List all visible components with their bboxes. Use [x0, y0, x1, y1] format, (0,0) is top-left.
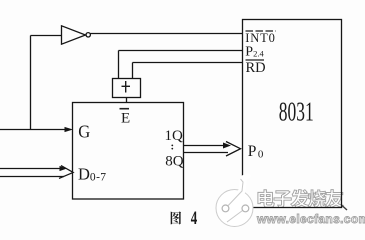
wire P2.4 vertical into OR box	[118, 51, 120, 79]
svg-text:RD: RD	[246, 60, 266, 76]
bus D0-7 line upper	[0, 168, 64, 170]
arrowhead bus output big	[226, 142, 241, 157]
watermark char 子	[274, 191, 291, 208]
wire inverter output to INT0 pin	[91, 33, 243, 35]
svg-text:4: 4	[191, 209, 197, 229]
inverter U1 triangle	[62, 26, 86, 44]
arrowhead small on upper D0-7 line	[60, 166, 68, 171]
svg-text:8Q: 8Q	[165, 154, 184, 170]
wire RD horizontal	[133, 62, 243, 64]
inverter U1 output bubble	[86, 33, 90, 37]
wire vertical from inverter input down to G line	[30, 36, 32, 130]
svg-text:G: G	[78, 122, 90, 141]
caption character 图	[171, 211, 181, 224]
svg-text:www.elecfans.com: www.elecfans.com	[256, 212, 365, 226]
label RD with overline	[246, 60, 266, 76]
label INT0 with overline	[245, 31, 276, 45]
bus output line lower	[184, 152, 229, 154]
svg-text:E: E	[121, 111, 130, 127]
8031 U4 box	[243, 20, 342, 208]
watermark char 友	[325, 190, 343, 208]
svg-text:8031: 8031	[279, 95, 314, 126]
arrowhead bus D0-7	[59, 166, 73, 179]
arrowhead G input	[65, 127, 74, 132]
wire OR output to latch E	[126, 98, 128, 103]
wire G input horizontal	[0, 129, 69, 131]
watermark char 电	[258, 190, 274, 208]
latch U3 box	[73, 103, 184, 200]
plus sign in OR box	[122, 81, 131, 93]
scan artifact at 8031 bottom-right corner	[342, 206, 347, 211]
bus output line upper	[184, 145, 229, 147]
OR gate box U2	[113, 79, 141, 98]
watermark char 发	[291, 190, 309, 208]
watermark chinese text 电子发烧友	[258, 190, 343, 208]
svg-text:INT0: INT0	[245, 31, 275, 45]
bus D0-7 line lower	[0, 176, 64, 178]
watermark logo circle	[216, 176, 253, 227]
wire P2.4 horizontal	[119, 50, 243, 52]
svg-text::: :	[171, 141, 175, 153]
wire RD vertical into OR box	[132, 63, 134, 79]
arrowhead small on upper output line	[223, 143, 231, 149]
watermark char 烧	[308, 190, 326, 208]
label E with overline	[120, 109, 131, 127]
wire inverter input horizontal	[31, 35, 62, 37]
